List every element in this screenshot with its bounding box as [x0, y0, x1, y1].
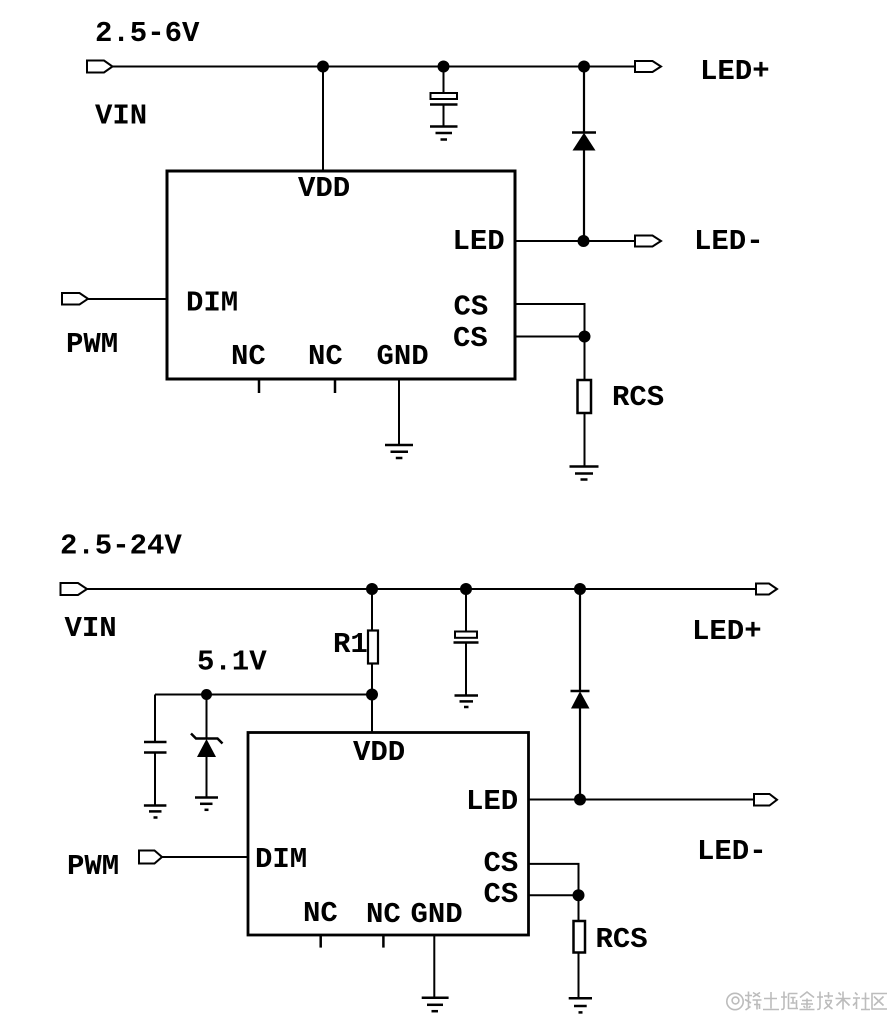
- svg-text:NC: NC: [231, 340, 266, 373]
- wire VDD drop: [322, 67, 324, 172]
- junction cap C1 rail: [438, 61, 450, 73]
- node LED+ connector flag (bottom): [756, 584, 777, 595]
- diode D1: [572, 67, 596, 242]
- node LED+ connector flag (top): [635, 61, 661, 72]
- 术: [836, 992, 851, 1010]
- svg-text:LED-: LED-: [697, 835, 767, 868]
- svg-text:DIM: DIM: [186, 287, 238, 320]
- 技: [817, 992, 833, 1010]
- junction diode on LED- wire: [578, 235, 590, 247]
- capacitor C3 (rect style): [454, 589, 479, 696]
- svg-text:CS: CS: [454, 291, 489, 324]
- node VIN connector flag (top): [87, 61, 113, 73]
- wire CS lower (bottom): [529, 894, 579, 896]
- @: [727, 993, 743, 1009]
- wire VIN rail (bottom): [87, 588, 756, 590]
- svg-text:LED-: LED-: [694, 225, 764, 258]
- ground (RCS bottom): [569, 998, 592, 1012]
- resistor R1: [368, 589, 378, 695]
- wire CS upper (bottom): [529, 864, 579, 895]
- junction zener node: [201, 689, 212, 700]
- svg-text:CS: CS: [484, 847, 519, 880]
- pin stub NC (left, bottom): [319, 935, 322, 948]
- svg-text:RCS: RCS: [596, 923, 648, 956]
- zener diode ZD 5.1V: [191, 695, 223, 798]
- wire LED pin to LED- flag: [515, 240, 635, 242]
- svg-text:NC: NC: [366, 898, 401, 931]
- svg-text:LED+: LED+: [700, 55, 770, 88]
- pin stub NC (left): [258, 379, 261, 393]
- junction CS: [579, 331, 591, 343]
- wire GND pin drop (bottom): [433, 935, 435, 998]
- svg-text:RCS: RCS: [612, 381, 664, 414]
- junction R1 rail: [366, 583, 378, 595]
- wire PWM to DIM: [88, 298, 167, 300]
- wire GND pin drop: [398, 379, 400, 445]
- wire CS lower: [515, 336, 585, 338]
- 社: [853, 993, 870, 1010]
- diode D2: [571, 589, 590, 800]
- junction VDD rail: [317, 61, 329, 73]
- IC U2 box: [248, 733, 529, 936]
- ground (GND pin bottom): [422, 998, 449, 1011]
- junction diode D1 rail: [578, 61, 590, 73]
- wire PWM to DIM (bottom): [162, 856, 248, 858]
- junction diode D2 rail: [574, 583, 586, 595]
- wire LED pin to LED- flag (bottom): [529, 799, 755, 801]
- svg-text:VIN: VIN: [95, 100, 147, 133]
- node LED- connector flag (top): [635, 236, 661, 247]
- wire VIN rail: [113, 66, 636, 68]
- 掘: [781, 992, 798, 1010]
- svg-text:VDD: VDD: [298, 172, 350, 205]
- svg-text:CS: CS: [484, 878, 519, 911]
- resistor RCS (top circuit): [578, 337, 592, 467]
- svg-text:2.5-24V: 2.5-24V: [60, 530, 182, 563]
- junction diode on LED wire (bottom): [574, 794, 586, 806]
- svg-text:GND: GND: [377, 340, 429, 373]
- node PWM connector flag (top): [62, 293, 88, 305]
- capacitor C1: [430, 67, 458, 127]
- wire CS upper: [515, 304, 585, 337]
- 区: [872, 994, 887, 1010]
- ground (GND pin): [385, 445, 413, 458]
- watermark @稀土掘金技术社区 (vector strokes): [727, 992, 887, 1011]
- svg-text:2.5-6V: 2.5-6V: [95, 17, 200, 50]
- svg-text:NC: NC: [303, 897, 338, 930]
- 金: [800, 992, 815, 1010]
- node LED- connector flag (bottom): [754, 794, 777, 806]
- svg-text:5.1V: 5.1V: [197, 646, 267, 679]
- junction cap C3 rail: [460, 583, 472, 595]
- svg-text:VDD: VDD: [353, 736, 405, 769]
- 稀: [745, 992, 762, 1011]
- ground (C2): [144, 806, 167, 818]
- ground (zener): [195, 798, 218, 810]
- svg-text:R1: R1: [333, 628, 368, 661]
- IC U1 box: [167, 171, 515, 379]
- pin stub NC (mid, bottom): [382, 935, 385, 948]
- svg-text:DIM: DIM: [255, 843, 307, 876]
- pin stub NC (mid): [334, 379, 337, 393]
- junction VDD node (bottom): [366, 689, 378, 701]
- svg-text:GND: GND: [411, 898, 463, 931]
- svg-text:LED: LED: [466, 785, 518, 818]
- ground (RCS top circuit): [570, 467, 599, 480]
- svg-text:PWM: PWM: [66, 328, 118, 361]
- svg-text:VIN: VIN: [65, 612, 117, 645]
- resistor RCS (bottom circuit): [574, 895, 586, 998]
- svg-text:PWM: PWM: [67, 850, 119, 883]
- ground (C1): [430, 127, 458, 140]
- node VIN connector flag (bottom): [61, 583, 88, 595]
- svg-text:LED+: LED+: [692, 615, 762, 648]
- wire 5.1V node: [155, 694, 372, 696]
- junction CS (bottom): [573, 889, 585, 901]
- capacitor C2 (plain): [144, 695, 167, 806]
- wire VDD drop (bottom): [371, 695, 373, 733]
- node PWM connector flag (bottom): [139, 851, 162, 864]
- ground (C3): [455, 696, 479, 708]
- svg-text:NC: NC: [308, 340, 343, 373]
- svg-text:LED: LED: [453, 225, 505, 258]
- 土: [763, 992, 779, 1010]
- svg-text:CS: CS: [453, 322, 488, 355]
